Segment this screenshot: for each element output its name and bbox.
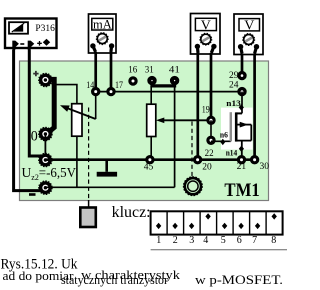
wire P316 right terminal to bus terminal: [29, 50, 42, 156]
pin 45: [147, 157, 153, 163]
pin 20: [195, 157, 201, 163]
terminal Uz2 bus: [39, 153, 52, 166]
table rule under klucz: [151, 249, 287, 251]
link wire 31-41: [152, 81, 175, 86]
wire pin 14 down to wiper: [95, 92, 97, 119]
transistor VT1 background: [221, 108, 253, 150]
svg-text:31: 31: [145, 64, 154, 74]
klucz actuator box: [80, 208, 96, 228]
svg-text:6: 6: [237, 235, 242, 246]
wire pin31 to potentiometer P2: [150, 86, 152, 104]
svg-text:8: 8: [271, 235, 276, 246]
terminal minus: [39, 181, 52, 194]
ground: [97, 160, 117, 177]
transistor VT1 gate electrode: [230, 112, 232, 141]
svg-text:mA: mA: [93, 18, 112, 32]
pin 41: [172, 78, 177, 83]
pin 14: [93, 89, 99, 95]
wire winding tap to resistor R1: [57, 85, 77, 104]
pin 30: [252, 157, 258, 163]
svg-text:7: 7: [252, 235, 257, 246]
label plus: [33, 71, 38, 76]
svg-text:n13: n13: [226, 99, 241, 108]
terminal 0: [39, 127, 52, 140]
klucz switch block: [151, 211, 283, 234]
wiper of P2 to pin 19: [160, 119, 211, 121]
node n6: [220, 139, 225, 145]
transistor VT1 bottom lead: [236, 140, 251, 142]
wire V1 left terminal to pin 20: [196, 53, 199, 160]
wire mA left terminal to pin 14: [94, 52, 97, 92]
svg-text:3: 3: [189, 235, 194, 246]
bottom bus wire y=159.7: [45, 158, 254, 161]
svg-text:41: 41: [169, 64, 180, 74]
wire pin 24 to drain n13: [241, 92, 243, 114]
board TM1: [20, 61, 269, 201]
pin 17: [108, 89, 114, 95]
voltmeter V1: [191, 14, 221, 55]
dashed mechanical link to klucz: [88, 108, 90, 201]
wire n6 pin22 to gate: [211, 140, 231, 142]
svg-text:w p-MOSFET.: w p-MOSFET.: [195, 272, 283, 287]
svg-text:klucz:: klucz:: [112, 204, 151, 221]
potentiometer P2: [147, 104, 156, 136]
pin 31: [149, 78, 154, 83]
wire pin 19 to pin 22: [210, 120, 212, 140]
label minus: [29, 193, 36, 196]
transistor VT1 right lead: [250, 125, 252, 141]
transistor VT1 source lead with arrow: [238, 124, 252, 126]
wire board edge to klucz actuator: [88, 200, 90, 207]
svg-text:2: 2: [173, 235, 178, 246]
wiper arrow of R1: [66, 108, 96, 120]
svg-text:19: 19: [202, 105, 210, 115]
svg-text:5: 5: [221, 235, 226, 246]
transistor VT1 channel: [235, 112, 238, 141]
svg-text:P316: P316: [35, 23, 55, 34]
wire P2 bottom to pin 45: [150, 137, 152, 160]
switch position numbers: [156, 235, 276, 246]
pin 16: [130, 78, 136, 84]
svg-text:V: V: [201, 18, 211, 33]
wire V2 left terminal to pin 29: [241, 54, 244, 76]
wire source to pin 21: [241, 141, 243, 160]
voltmeter V2: [234, 14, 263, 55]
wire terminal 0 to bus terminal: [44, 134, 46, 160]
svg-text:V: V: [244, 19, 254, 34]
svg-text:20: 20: [202, 162, 212, 172]
svg-text:0: 0: [31, 129, 38, 145]
transistor VT1 drain jog: [236, 112, 242, 114]
terminal plus: [39, 73, 52, 86]
svg-text:n14: n14: [226, 149, 238, 158]
svg-text:22: 22: [205, 148, 214, 158]
svg-text:24: 24: [229, 80, 239, 90]
svg-text:4: 4: [203, 235, 208, 246]
rheostat P1 winding: [47, 79, 54, 133]
svg-text:TM1: TM1: [224, 180, 259, 201]
minus rail y=187.3: [45, 186, 174, 188]
svg-text:statycznych tranzystor: statycznych tranzystor: [61, 272, 169, 287]
svg-text:n6: n6: [220, 130, 228, 139]
wire pin 41 down to -6,5V rail: [174, 86, 176, 187]
pin 29: [239, 73, 245, 79]
node n13: [239, 104, 244, 110]
dashed mechanical link to knob: [191, 122, 193, 177]
top bus wire y=91.6: [96, 91, 242, 93]
resistor R1: [72, 104, 82, 137]
svg-text:1: 1: [156, 235, 161, 246]
wire V2 right terminal to pin 30: [253, 54, 256, 160]
wire mA right terminal to pin 17: [110, 52, 113, 92]
pin 24: [239, 89, 245, 95]
svg-text:30: 30: [260, 161, 270, 171]
node n14: [239, 146, 244, 152]
wire V1 right terminal to pin 19: [210, 53, 213, 120]
pin 21: [238, 157, 244, 163]
pin 19: [208, 117, 214, 123]
svg-text:U: U: [22, 165, 32, 180]
svg-text:17: 17: [115, 80, 123, 90]
svg-text:=-6,5V: =-6,5V: [39, 165, 76, 180]
wire P316 left terminal to minus terminal: [14, 50, 42, 191]
svg-text:16: 16: [128, 64, 138, 74]
pin 22: [208, 137, 214, 143]
knob: [184, 177, 203, 196]
milliammeter mA: [89, 14, 117, 53]
switch position diamonds: [156, 213, 277, 229]
instrument P316: [5, 19, 57, 51]
wire R1 bottom to -6,5V rail: [76, 136, 78, 187]
svg-text:z2: z2: [31, 173, 39, 182]
